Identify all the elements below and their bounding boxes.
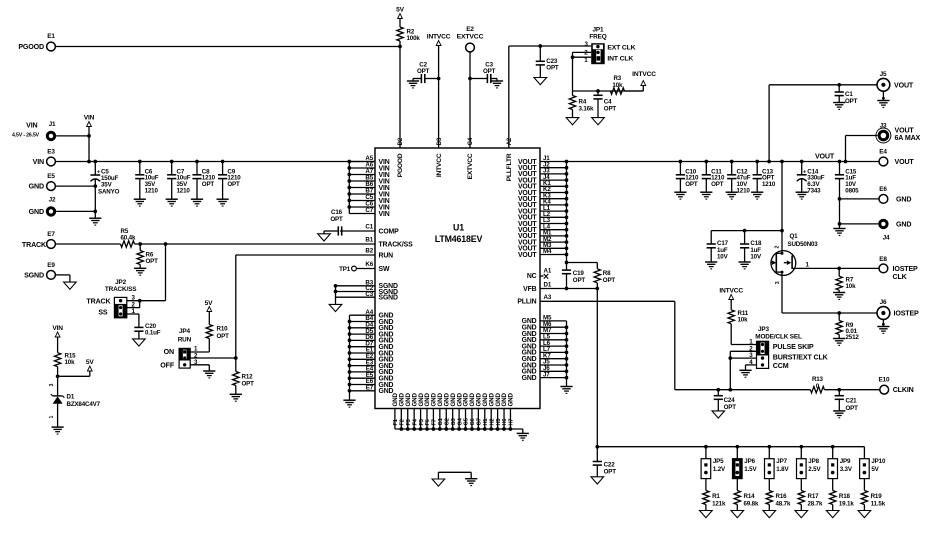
ground C17 [705,261,717,263]
svg-text:JP5: JP5 [713,458,724,465]
pin B3 SGND [336,285,376,287]
connector J3 VOUT 6A MAX [876,128,891,143]
svg-text:VOUT: VOUT [895,158,915,166]
svg-text:F4: F4 [412,418,418,425]
svg-text:JP7: JP7 [776,458,787,465]
ground C20 [133,339,146,346]
svg-text:OPT: OPT [330,216,343,223]
wire J5 to rail [769,84,877,86]
pin D5 GND left [350,333,376,335]
pin D7 GND left [350,346,376,348]
svg-text:B2: B2 [365,248,373,255]
svg-text:OPT: OPT [483,68,496,75]
pin L2 VOUT [540,216,567,218]
svg-text:FREQ: FREQ [589,34,606,41]
ground R16 [763,511,776,518]
pin M7 GND right [540,333,567,335]
ground R12 [230,393,242,395]
capacitor C2 OPT [437,77,441,81]
svg-text:OPT: OPT [604,106,617,113]
ground C22 [591,477,604,484]
pin G4 GND bottom [458,409,460,430]
svg-text:48.7k: 48.7k [776,501,791,508]
pin J2 VOUT [540,167,567,169]
svg-text:E10: E10 [879,377,891,384]
svg-text:10V: 10V [750,253,762,260]
svg-text:VOUT: VOUT [894,81,914,89]
svg-text:CLKIN: CLKIN [893,386,914,394]
svg-text:1.5V: 1.5V [744,466,757,473]
pin D1 VFB [540,288,597,290]
svg-text:10k: 10k [846,283,857,290]
svg-text:VIN: VIN [26,121,37,129]
connector J5 VOUT [877,78,890,91]
pin K3 VOUT [540,198,567,200]
pin B6 VIN [349,187,375,189]
svg-text:10k: 10k [612,82,623,89]
svg-text:VFB: VFB [523,286,537,293]
svg-text:TRACK/SS: TRACK/SS [379,241,414,248]
svg-text:COMP: COMP [379,228,400,235]
capacitor C24 OPT [716,388,720,392]
svg-text:G3: G3 [451,418,457,425]
svg-text:10k: 10k [738,317,749,324]
ground C13 [751,191,763,193]
ground R9 [833,338,845,340]
svg-text:OPT: OPT [845,98,858,105]
wire VFB divider drop [596,289,598,447]
svg-text:OPT: OPT [202,181,215,188]
svg-text:RUN: RUN [379,252,394,259]
ground R1 [700,511,713,518]
capacitor C5 150uF [93,160,97,164]
capacitor C22 OPT [596,447,598,462]
pin E1 GND left [350,352,376,354]
pin A4 GND left [350,314,376,316]
pin J4 VOUT [540,179,567,181]
svg-text:J7: J7 [543,371,550,378]
svg-text:R1: R1 [712,493,720,500]
resistor R13 0 [810,387,824,393]
pin G2 GND bottom [445,409,447,430]
svg-text:GND: GND [29,208,44,216]
svg-text:LTM4618EV: LTM4618EV [435,234,483,244]
pin K4 VOUT [540,204,567,206]
pin E3 GND left [350,365,376,367]
pin G7 GND bottom [477,409,479,430]
turret E5 GND [47,182,56,191]
svg-text:M4: M4 [543,248,552,255]
wire E9 to ground [55,274,70,276]
pin B4 GND left [350,321,376,323]
pin E2 GND left [350,358,376,360]
turret E10 CLKIN [880,385,889,394]
ground C24 [712,411,725,418]
wire J3 to rail [846,135,878,137]
ground C3 [491,80,503,82]
svg-text:E1: E1 [47,33,55,40]
svg-text:EXTVCC: EXTVCC [467,153,474,179]
svg-text:PGOOD: PGOOD [18,43,44,51]
svg-text:Q1: Q1 [790,233,799,240]
svg-text:G4: G4 [457,417,463,425]
svg-text:A1: A1 [544,267,552,274]
ground R14 [731,511,744,518]
transistor Q1 SUD50N03 [771,251,796,276]
svg-text:D1: D1 [67,393,75,400]
resistor R4 3.16k [572,91,574,96]
svg-text:F1: F1 [393,419,399,425]
capacitor C9 OPT [221,160,225,164]
resistor R14 69.8k [736,479,738,491]
wire VIN flag down to rail [88,127,90,162]
wire C17 C18 top [711,230,782,232]
wire JP2 pin1 to C20 [127,313,139,315]
svg-text:R10: R10 [217,326,229,333]
wire ground tie [438,471,471,473]
ground C12 [726,191,738,193]
pin M5 GND right [540,320,567,322]
ground C5 [89,217,101,219]
svg-text:J4: J4 [883,234,890,241]
resistor R19 11.5k [863,479,865,491]
pin L5 GND right [540,339,567,341]
pin C7 VIN [349,213,375,215]
svg-text:A2: A2 [507,137,513,145]
svg-text:CLK: CLK [893,273,908,281]
svg-text:5V: 5V [871,466,879,473]
pin E4 GND left [350,371,376,373]
ground C8 [191,198,203,200]
pin H2 GND bottom [490,409,492,430]
pin E7 GND left [350,390,376,392]
capacitor C12 47uF [730,160,734,164]
wire JP3 pins to PLLIN [729,351,731,389]
ground C21 [833,410,845,412]
wire VIN rail [55,161,375,163]
capacitor C13 OPT [755,160,759,164]
svg-text:H6: H6 [502,419,508,426]
svg-text:VIN: VIN [84,115,95,122]
svg-text:+: + [97,170,100,176]
svg-text:G7: G7 [477,418,483,425]
capacitor C14 330uF [800,160,804,164]
svg-text:H1: H1 [483,419,489,426]
svg-text:VOUT: VOUT [518,252,537,259]
turret E7 TRACK [47,240,56,249]
node 5V tap [56,374,60,378]
svg-text:JP1: JP1 [593,27,605,34]
svg-text:PLLFLTR: PLLFLTR [506,153,513,181]
ground JP4 [203,370,215,372]
svg-text:19.1k: 19.1k [839,501,854,508]
jumper JP8 2.5V [799,445,803,449]
jumper JP5 1.2V [704,445,708,449]
ground bottom bus [517,432,529,434]
capacitor C6 10uF [138,160,142,164]
svg-text:OPT: OPT [724,404,737,411]
svg-text:JP2: JP2 [115,279,127,286]
svg-text:5V: 5V [86,359,95,366]
wire E7 to R5 [55,243,120,245]
pin M6 GND right [540,326,567,328]
pin K6 SW with TP1 [357,268,376,270]
svg-text:OPT: OPT [846,405,859,412]
pin F6 GND bottom [426,409,428,430]
svg-text:VIN: VIN [379,211,390,218]
svg-text:BURST/EXT CLK: BURST/EXT CLK [773,353,829,361]
turret E4 VOUT [879,157,888,166]
op-amp U1 LTM4618EV body [375,148,540,409]
svg-text:3.3V: 3.3V [840,466,853,473]
svg-text:U1: U1 [453,223,464,233]
jumper JP6 1.5V [735,445,739,449]
svg-text:F7: F7 [432,419,438,425]
svg-text:R17: R17 [808,493,820,500]
svg-text:11.5k: 11.5k [871,501,886,508]
resistor R11 10k [730,300,732,310]
svg-text:PLLIN: PLLIN [517,299,536,306]
wire JP4 pin1 to R10 [190,351,209,353]
ground C10 [674,191,686,193]
svg-text:TRACK: TRACK [86,297,111,305]
svg-text:GND: GND [508,393,515,407]
ground C4 [592,118,605,125]
svg-text:INT CLK: INT CLK [607,55,633,62]
capacitor C18 1uF [743,229,747,233]
svg-text:OFF: OFF [160,361,175,369]
wire VOUT bus to feedback [565,261,569,265]
ground E9 [64,282,77,289]
svg-text:OPT: OPT [711,181,724,188]
svg-text:NC: NC [527,273,537,280]
pin A3 PLLIN [540,300,675,302]
resistor R6 OPT [139,244,141,251]
svg-text:E4: E4 [879,149,887,156]
svg-text:G1: G1 [438,418,444,425]
capacitor C10 OPT [679,160,683,164]
svg-text:R13: R13 [812,376,824,383]
svg-text:R12: R12 [242,373,254,380]
wire VOUT rail [567,161,880,163]
turret E2 EXTVCC [466,43,475,52]
pin H7 GND bottom [509,409,511,430]
test point TP1 [352,266,357,271]
svg-text:R4: R4 [579,99,587,106]
ground R18 [826,511,839,518]
resistor R2 100k [399,19,401,28]
pin K2 VOUT [540,192,567,194]
capacitor C15 1uF [838,160,842,164]
svg-text:TRACK/SS: TRACK/SS [105,286,137,293]
jumper JP7 1.8V [767,445,771,449]
svg-text:E8: E8 [879,256,887,263]
svg-text:TRACK: TRACK [22,241,47,249]
svg-text:1.2V: 1.2V [713,466,726,473]
wire VOUT pin bus [566,162,568,263]
wire JP3 pin4 to ground [746,364,757,366]
svg-text:GND: GND [896,220,911,228]
wire J4 to GND column [840,223,879,225]
svg-text:J5: J5 [880,71,887,78]
jack J1 VIN [46,131,56,141]
pin G1 GND bottom [439,409,441,430]
svg-text:F3: F3 [406,419,412,425]
wire bottom GND bus [395,428,523,430]
pin H5 GND bottom [497,409,499,430]
svg-text:JP6: JP6 [744,458,755,465]
svg-text:EXT CLK: EXT CLK [607,45,635,52]
pin B5 VIN [349,180,375,182]
svg-text:K6: K6 [365,261,373,268]
svg-text:E6: E6 [879,186,887,193]
ground C16 [318,234,331,241]
wire JP2 pin2 tie [127,307,140,309]
svg-text:2.5V: 2.5V [808,466,821,473]
pin D6 GND left [350,339,376,341]
svg-text:F2: F2 [400,419,406,425]
capacitor C23 OPT [538,44,542,48]
ground tie triangle [432,479,445,486]
ground right GND bus [560,386,572,388]
pin G6 GND bottom [471,409,473,430]
svg-text:GND: GND [522,375,537,382]
pin L7 GND right [540,351,567,353]
svg-text:5V: 5V [205,300,214,307]
resistor R3 10k [610,88,624,94]
svg-text:3: 3 [775,281,781,284]
svg-text:OPT: OPT [217,333,230,340]
svg-text:100k: 100k [407,35,421,42]
capacitor C4 OPT [597,91,599,95]
svg-text:C4: C4 [604,99,612,106]
svg-text:1.8V: 1.8V [776,466,789,473]
resistor R5 60.4k [121,241,135,247]
svg-text:C1: C1 [365,224,373,231]
svg-text:1: 1 [49,416,55,419]
wire PGOOD E1 to R2 junction [55,46,400,48]
resistor R8 OPT [596,263,598,269]
svg-text:INTVCC: INTVCC [436,153,443,177]
capacitor C21 OPT [837,388,841,392]
ground tie bars [465,478,477,480]
svg-text:JP4: JP4 [179,328,191,335]
wire J2 to C5 column [56,210,95,212]
svg-text:VOUT: VOUT [815,153,835,161]
wire R5 to IC pin B1 [135,243,376,245]
svg-text:28.7k: 28.7k [808,501,823,508]
svg-text:6A MAX: 6A MAX [895,134,921,142]
svg-text:IOSTEP: IOSTEP [894,310,920,318]
ground R4 [566,118,579,125]
svg-text:G2: G2 [444,418,450,425]
pin J6 GND right [540,370,567,372]
svg-text:SGND: SGND [379,295,398,302]
jumper JP9 3.3V [831,445,835,449]
svg-text:7343: 7343 [807,188,821,195]
pin G3 GND bottom [452,409,454,430]
pin C6 VIN [349,206,375,208]
capacitor C1 OPT [837,83,841,87]
svg-text:3: 3 [49,384,55,387]
ground left GND bus [343,399,355,401]
ground R6 [134,267,146,269]
svg-text:INTVCC: INTVCC [427,34,451,41]
svg-text:D2: D2 [398,137,404,145]
pin M2 VOUT [540,241,567,243]
turret E1 PGOOD [47,42,56,51]
pin F3 GND bottom [407,409,409,430]
wire divider bus [597,446,864,448]
svg-text:C3: C3 [365,291,373,298]
svg-text:C22: C22 [604,462,616,469]
pin M3 VOUT [540,247,567,249]
connector J6 IOSTEP [877,307,890,320]
wire JP4 pin3 to ground [190,364,209,366]
resistor R18 19.1k [832,479,834,491]
svg-text:E5: E5 [47,173,55,180]
pin K1 VOUT [540,185,567,187]
svg-text:E7: E7 [47,231,55,238]
svg-text:OPT: OPT [604,469,617,476]
svg-text:10k: 10k [65,359,76,366]
ground R19 [858,511,871,518]
svg-text:H5: H5 [496,419,502,426]
pin G5 GND bottom [465,409,467,430]
ground JP3 pin4 [739,369,751,371]
resistor R12 OPT [235,358,237,372]
svg-text:OPT: OPT [227,181,240,188]
pin L1 VOUT [540,210,567,212]
svg-text:60.4k: 60.4k [121,235,136,242]
svg-text:2512: 2512 [846,334,860,341]
svg-text:2: 2 [775,246,781,249]
wire E6 to GND column [840,198,880,200]
svg-text:IOSTEP: IOSTEP [893,265,919,273]
svg-text:C19: C19 [573,270,585,277]
pin J7 GND right [540,377,567,379]
wire right GND bus [566,321,568,387]
pin F7 GND bottom [432,409,434,430]
svg-text:E2: E2 [466,26,474,33]
svg-text:SS: SS [98,308,108,316]
resistor R1 121k [705,479,707,491]
svg-text:RUN: RUN [178,336,192,343]
capacitor C17 1uF [710,231,712,244]
pin F2 GND bottom [400,409,402,430]
svg-text:0805: 0805 [845,188,859,195]
svg-text:3.16k: 3.16k [579,106,594,113]
svg-text:F5: F5 [419,419,425,425]
ground C7 [166,198,178,200]
svg-text:OPT: OPT [685,181,698,188]
wire J1 to VIN node [56,135,89,137]
svg-text:C21: C21 [846,398,858,405]
svg-text:D1: D1 [544,281,552,288]
svg-text:J2: J2 [49,197,56,204]
jack J2 GND [46,206,56,216]
pin L6 GND right [540,345,567,347]
pin C5 VIN [349,200,375,202]
capacitor C3 OPT [468,77,472,81]
svg-text:JP9: JP9 [840,458,851,465]
svg-text:1210: 1210 [145,188,159,195]
svg-text:D3: D3 [437,137,443,145]
svg-text:JP3: JP3 [758,326,770,333]
pin M4 VOUT [540,254,567,256]
svg-text:A3: A3 [544,294,552,301]
svg-text:C7: C7 [365,207,373,214]
